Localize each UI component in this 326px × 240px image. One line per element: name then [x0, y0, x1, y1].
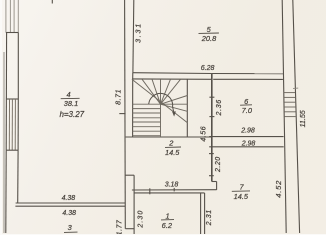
- left wall inner line upper: [17, 33, 19, 100]
- room4 south wall lower line: [15, 205, 125, 207]
- east exterior wall outer line: [293, 0, 300, 233]
- room 1 label: [161, 211, 174, 230]
- svg-text:4.38: 4.38: [62, 210, 76, 217]
- wall room1 west vertical: [133, 175, 135, 235]
- svg-text:14.5: 14.5: [234, 192, 249, 201]
- left wall inner line lower: [17, 150, 19, 203]
- east exterior wall inner line: [282, 0, 286, 233]
- room4 south wall upper line: [16, 202, 126, 204]
- wall under room5 (6.28 wall): [133, 72, 212, 75]
- svg-text:14.5: 14.5: [165, 148, 180, 157]
- wall room5/room6 top line: [212, 73, 284, 75]
- short vertical joining 6.28 wall: [132, 72, 134, 79]
- svg-text:11.55: 11.55: [300, 110, 307, 127]
- wall room1/room7 west line: [200, 193, 202, 235]
- stair main diagonal: [132, 79, 187, 122]
- left wall outer line lower: [5, 150, 7, 233]
- wall room6/room7 upper line: [209, 136, 283, 138]
- svg-text:5: 5: [207, 25, 212, 34]
- room1 north wall upper line: [132, 189, 217, 191]
- svg-text:6.2: 6.2: [162, 221, 172, 230]
- svg-text:4: 4: [67, 90, 71, 99]
- dimension tick 2.36 bottom: [209, 116, 214, 118]
- svg-text:7.0: 7.0: [242, 106, 253, 115]
- wall room1/room7 step horizontal: [212, 181, 217, 183]
- stair winder radial 5: [161, 79, 181, 104]
- svg-text:8.71: 8.71: [116, 89, 123, 105]
- svg-text:4.56: 4.56: [201, 126, 208, 142]
- stair winder radial horizontal: [161, 103, 188, 105]
- stair tread at center level: [133, 103, 161, 105]
- stair winder radial 6: [161, 96, 188, 105]
- wall room1/room7 step vertical: [216, 182, 218, 190]
- stair flight divider vertical: [160, 104, 162, 137]
- stair treads straight flight: [133, 108, 161, 110]
- svg-text:1.77: 1.77: [116, 219, 123, 235]
- left wall window1 sill line: [6, 32, 18, 34]
- wall room2/room1 jog horizontal: [126, 174, 135, 176]
- stair winder radial 4: [161, 79, 171, 104]
- svg-text:2: 2: [168, 138, 173, 147]
- wall room4/room5 line W1: [124, 0, 127, 229]
- svg-text:38.1: 38.1: [64, 99, 78, 108]
- svg-text:2.36: 2.36: [216, 99, 223, 116]
- room 4 label: [59, 90, 84, 119]
- door tick 3.18: [173, 188, 175, 192]
- room 6 label: [240, 97, 253, 115]
- dimension tick 2.20 top: [209, 153, 214, 155]
- svg-text:3.31: 3.31: [136, 22, 143, 43]
- wall room3/room1 jog: [125, 228, 134, 230]
- east wall window rungs: [284, 92, 295, 94]
- room 7 label: [232, 182, 250, 201]
- dimension tick 8.71: [119, 113, 125, 115]
- dimension tick 11.55: [293, 87, 298, 89]
- stair enclosure top line: [132, 78, 211, 80]
- left wall window2 hatch: [8, 99, 10, 150]
- left wall window2 sill line: [6, 149, 18, 151]
- white margin bottom: [0, 234, 326, 235]
- svg-text:3.18: 3.18: [165, 181, 179, 188]
- wall room4/room5 inner line W2: [132, 0, 135, 72]
- wall room6/room7 lower line: [209, 146, 284, 148]
- left wall window2 head line: [7, 98, 19, 100]
- svg-text:2.98: 2.98: [241, 141, 256, 148]
- stair enclosure right line: [186, 79, 188, 137]
- stair walk arrow head: [172, 111, 176, 116]
- room1 north wall lower line: [134, 192, 204, 194]
- svg-text:7: 7: [239, 182, 244, 191]
- left exterior wall: window hatch top segment: [6, 0, 18, 33]
- svg-text:2.31: 2.31: [206, 209, 213, 226]
- svg-text:3: 3: [68, 223, 73, 232]
- room 5 label: [199, 25, 219, 43]
- wall room2/room6 vertical: [211, 74, 213, 182]
- stair walk line arc: [149, 93, 174, 112]
- left dimension line: [3, 52, 5, 233]
- dimension tick 2.36 top: [209, 96, 214, 98]
- stair enclosure left line: [132, 79, 134, 137]
- svg-text:20.8: 20.8: [201, 34, 217, 43]
- svg-text:h=3.27: h=3.27: [59, 110, 84, 119]
- dimension tick 2.20 bottom: [209, 175, 214, 177]
- stair winder radial 2: [152, 79, 161, 104]
- svg-text:1: 1: [165, 211, 169, 220]
- svg-text:2.30: 2.30: [137, 210, 144, 229]
- svg-text:4.52: 4.52: [274, 180, 283, 198]
- left wall outer line: [5, 33, 7, 151]
- svg-text:4.38: 4.38: [62, 195, 76, 202]
- white margin left: [0, 0, 2, 235]
- stair bottom wall: [126, 136, 212, 138]
- room 2 label: [165, 138, 181, 157]
- stair winder radial 1: [142, 79, 161, 104]
- top edge tick: [51, 0, 53, 4]
- door tick room1: [149, 188, 151, 194]
- svg-text:2.20: 2.20: [215, 156, 222, 173]
- room 3 label: [64, 223, 78, 232]
- svg-text:2.98: 2.98: [240, 128, 255, 135]
- wall room1/room7 east line: [204, 193, 206, 235]
- room6 top inner line: [213, 78, 283, 80]
- stair winder radial 3: [160, 79, 162, 104]
- stair winder radial 8: [161, 104, 188, 111]
- svg-text:6.28: 6.28: [201, 65, 215, 72]
